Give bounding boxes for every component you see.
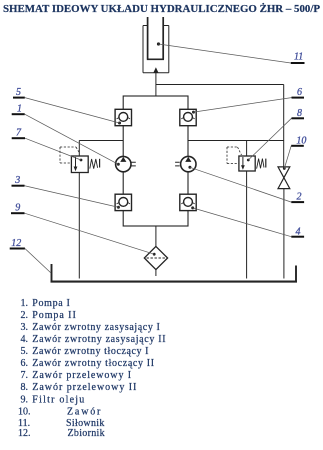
svg-text:Zawór zwrotny zasysający I: Zawór zwrotny zasysający I <box>32 322 160 333</box>
svg-text:8.: 8. <box>21 382 29 393</box>
svg-text:1.: 1. <box>21 298 29 309</box>
svg-text:Zawór przelewowy II: Zawór przelewowy II <box>32 382 136 393</box>
svg-text:6.: 6. <box>21 358 29 369</box>
svg-text:Zawór przelewowy I: Zawór przelewowy I <box>32 370 131 381</box>
svg-text:5: 5 <box>16 87 21 98</box>
svg-text:4.: 4. <box>21 334 29 345</box>
svg-text:2: 2 <box>297 192 302 203</box>
svg-text:Pompa I: Pompa I <box>32 298 70 309</box>
svg-text:Zbiornik: Zbiornik <box>68 428 105 439</box>
svg-text:7.: 7. <box>21 370 29 381</box>
svg-text:11: 11 <box>294 52 303 63</box>
svg-text:Zawór zwrotny tłoczący II: Zawór zwrotny tłoczący II <box>32 358 154 369</box>
svg-text:2.: 2. <box>21 310 29 321</box>
svg-text:Zawór zwrotny tłoczący I: Zawór zwrotny tłoczący I <box>32 346 148 357</box>
svg-text:Zawór zwrotny zasysający II: Zawór zwrotny zasysający II <box>32 334 165 345</box>
svg-text:SHEMAT IDEOWY UKŁADU HYDRAULIC: SHEMAT IDEOWY UKŁADU HYDRAULICZNEGO ŻHR … <box>3 3 321 15</box>
svg-text:6: 6 <box>297 87 302 98</box>
svg-text:1: 1 <box>17 104 22 115</box>
svg-text:12.: 12. <box>18 428 31 439</box>
svg-text:5.: 5. <box>21 346 29 357</box>
svg-text:9: 9 <box>15 203 20 214</box>
svg-text:10.: 10. <box>18 407 31 418</box>
svg-text:8: 8 <box>297 108 302 119</box>
svg-text:Pompa II: Pompa II <box>32 310 76 321</box>
svg-text:12: 12 <box>11 238 21 249</box>
svg-text:3: 3 <box>14 175 20 186</box>
svg-text:3.: 3. <box>21 322 29 333</box>
svg-text:4: 4 <box>296 226 301 237</box>
svg-text:9.: 9. <box>21 394 29 405</box>
svg-text:10: 10 <box>296 135 306 146</box>
